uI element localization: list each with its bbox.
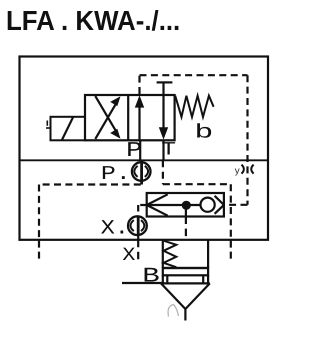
X plug center line (137, 216, 140, 236)
section divider line (20, 159, 269, 161)
poppet cone (161, 283, 210, 309)
svg-text:B: B (142, 265, 159, 288)
down arrow B->T (right square) (159, 95, 168, 140)
shuttle valve body (147, 193, 224, 217)
return spring b (175, 96, 213, 117)
pilot line from valve top (dashed) (140, 75, 248, 205)
manifold block outline (20, 57, 269, 240)
poppet land band (163, 268, 208, 275)
dashed drain from T to right drop (163, 160, 231, 259)
orifice plug P. (132, 162, 151, 181)
wire P port to divider (139, 140, 141, 160)
orifice plug X. (128, 216, 147, 235)
pilot line shuttle to cartridge (dashed) (185, 205, 187, 240)
svg-text:b: b (194, 122, 213, 144)
shuttle internal line (147, 204, 200, 206)
crossed arrow P->B (left square) (95, 96, 120, 139)
port X stub below block (137, 240, 139, 260)
svg-text:P.: P. (101, 163, 131, 185)
solenoid coil box (51, 117, 86, 141)
svg-text:X: X (122, 244, 135, 266)
shuttle right seat (215, 196, 224, 214)
blocked pilot port stub (T-bar) above valve (157, 82, 173, 95)
crossed arrow A->T (left square) (95, 96, 120, 139)
dashed branch to X. plug (138, 205, 147, 240)
faint pencil artifact (168, 305, 178, 317)
shuttle ball (201, 198, 215, 212)
seat band with chamfer (163, 275, 208, 283)
svg-text:X.: X. (101, 218, 129, 241)
wire T port to divider (162, 140, 164, 160)
cartridge spring (164, 241, 177, 267)
outlet line A (184, 309, 186, 321)
port B line (122, 282, 163, 284)
dashed pilot supply left leg (39, 185, 141, 260)
up arrow P->A (right square) (135, 95, 144, 140)
shuttle output junction dot (182, 201, 191, 210)
cartridge sleeve (163, 240, 208, 268)
electrical connector stub (46, 121, 51, 129)
directional valve body (4/2) (85, 95, 175, 140)
shuttle left seat (147, 194, 168, 215)
orifice in pilot line (242, 165, 254, 174)
P line through plug (140, 160, 143, 184)
svg-text:y: y (235, 167, 241, 177)
valve square divider (127, 95, 129, 140)
title LFA . KWA-./... (6, 5, 180, 37)
